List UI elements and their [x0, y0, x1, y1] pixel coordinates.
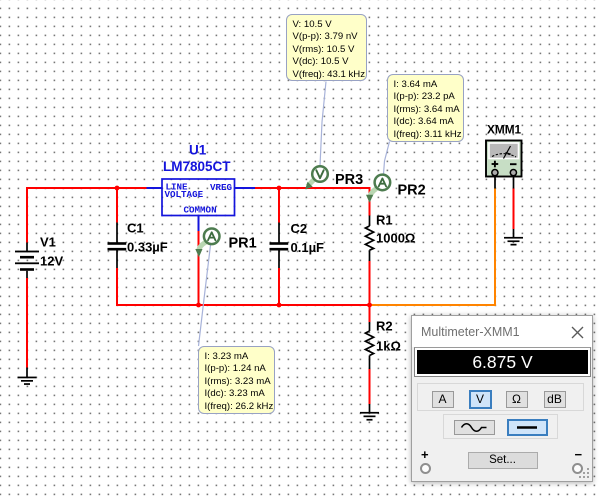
svg-text:0.1µF: 0.1µF [291, 240, 325, 255]
leader line from PR3 probe to V tooltip [320, 82, 326, 167]
mode groove box [417, 383, 584, 411]
plus terminal jack [420, 463, 431, 474]
title text [421, 325, 520, 339]
button V (selected) [469, 390, 492, 409]
svg-text:C2: C2 [291, 221, 308, 236]
wire: V1 negative to ground (red) [26, 278, 28, 368]
svg-text:LM7805CT: LM7805CT [163, 159, 231, 174]
button A [432, 391, 454, 408]
wire: C1 bottom to bottom net (red) [116, 268, 118, 305]
tooltip: PR3 voltage readings [286, 14, 367, 81]
wire: C1 bottom lead (black) [116, 251, 118, 269]
wire: XMM1 plus terminal stub (black) [494, 176, 496, 189]
button Ω [506, 391, 528, 408]
probe PR1 (current) [195, 229, 219, 258]
tooltip: PR1 current readings [198, 346, 275, 414]
svg-text:XMM1: XMM1 [487, 123, 522, 137]
leader line from PR1 probe to I tooltip [199, 245, 211, 346]
probe PR3 (voltage) [305, 166, 328, 189]
svg-text:C1: C1 [127, 221, 144, 236]
svg-text:VREG: VREG [210, 182, 233, 193]
junction node: C2 / bottom net [277, 303, 282, 308]
button AC (sine) [454, 420, 495, 435]
wire: XMM1 plus to R1/R2 node (orange) [371, 189, 495, 306]
black readout [417, 350, 588, 374]
probe PR2 (current) [366, 175, 390, 203]
resistor R2 [365, 331, 373, 356]
battery V1 [15, 243, 39, 279]
wire: XMM1 minus terminal stub (black) [513, 176, 515, 189]
wire: COMMON to bottom net (red) [198, 231, 200, 305]
junction node: C1 / top net [115, 186, 120, 191]
resize grip [577, 466, 591, 480]
wire: U1 COMMON pin stub (blue) [198, 216, 200, 232]
button dB [544, 391, 566, 408]
capacitor C2 [270, 242, 289, 250]
leader line from PR2 probe to I tooltip [384, 142, 390, 175]
resistor R1 [365, 226, 373, 250]
wire: U1 VREG pin stub (blue) [235, 187, 256, 189]
display frame [414, 347, 591, 377]
wire: R2 top lead (black) [369, 322, 371, 331]
wire: C2 bottom to bottom net (red) [278, 268, 280, 305]
svg-text:0.33µF: 0.33µF [127, 240, 168, 255]
junction node: COMMON / bottom net [196, 303, 201, 308]
svg-text:V1: V1 [40, 235, 56, 250]
multimeter window Multimeter-XMM1 [411, 315, 593, 482]
wire: C1 top stub (red) [116, 188, 118, 223]
wire: R1 bottom lead (black) [369, 250, 371, 261]
junction node: C2 / top net [277, 186, 282, 191]
svg-text:R1: R1 [376, 213, 393, 228]
plus terminal label [421, 447, 429, 462]
ground (XMM1) [504, 237, 523, 246]
wire: R2 bottom to ground (red) [369, 369, 371, 404]
multimeter XMM1 icon [486, 141, 522, 177]
svg-text:1000Ω: 1000Ω [376, 231, 415, 246]
Set button [468, 452, 538, 469]
wire: bottom net (red) [116, 304, 370, 306]
capacitor C1 [108, 242, 127, 250]
ground (R2) [360, 404, 379, 421]
svg-text:COMMON: COMMON [184, 205, 217, 216]
waveform groove box [443, 414, 558, 440]
wire: bottom net to R2 (red) [369, 305, 371, 322]
svg-text:1kΩ: 1kΩ [376, 339, 401, 354]
svg-text:12V: 12V [40, 254, 63, 269]
wire: R2 bottom lead (black) [369, 356, 371, 370]
wire: C2 bottom lead (black) [278, 251, 280, 269]
svg-text:PR3: PR3 [335, 172, 363, 188]
button DC (selected) [507, 419, 548, 436]
wire: VREG net to R1 top corner (red) [255, 188, 370, 216]
svg-text:VOLTAGE: VOLTAGE [165, 189, 204, 200]
svg-text:PR2: PR2 [398, 183, 426, 199]
ground (V1) [18, 368, 37, 385]
wire: R1 bottom to bottom net (red) [369, 261, 371, 305]
wire: C2 top lead (black) [278, 223, 280, 244]
wire: R1 top lead (black) [369, 216, 371, 227]
svg-text:PR1: PR1 [229, 236, 257, 252]
wire: XMM1 minus to ground (red) [513, 189, 515, 230]
junction node: R1-R2-XMM1 [367, 303, 372, 308]
tooltip: PR2 current readings [387, 74, 464, 142]
wire: C2 top stub (red) [278, 188, 280, 223]
svg-text:U1: U1 [189, 143, 207, 158]
wire: top net V1+ to U1.LINE (red) [27, 188, 147, 243]
svg-text:R2: R2 [376, 319, 393, 334]
multimeter title bar [412, 316, 592, 347]
op-amp U1 LM7805CT regulator box [162, 179, 235, 216]
wire: C1 top lead (black) [116, 223, 118, 244]
wire: XMM1 ground stub (black) [513, 229, 515, 238]
minus terminal jack [572, 463, 583, 474]
wire: U1 LINE pin stub (blue) [147, 187, 163, 189]
close button X [571, 326, 584, 339]
minus terminal label [575, 447, 583, 462]
